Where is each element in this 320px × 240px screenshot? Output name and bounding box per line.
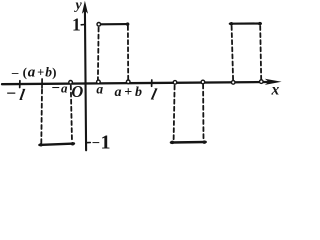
svg-text:1: 1 (101, 132, 111, 152)
svg-text:−a: −a (51, 80, 68, 96)
right positive pulse: dashed right edge (260, 26, 261, 80)
tick l (151, 80, 153, 86)
svg-text:−: − (6, 83, 16, 103)
middle negative pulse: dashed left edge (174, 86, 175, 141)
svg-text:a+b: a+b (115, 85, 143, 100)
left negative pulse: dashed left edge at x=-(a+b) (40, 90, 43, 143)
filled dot bottom-right corner of left pulse (71, 142, 75, 146)
open circle on axis at x=2l-a (201, 80, 205, 84)
tick y=-1 (86, 142, 90, 144)
tick y=1 (81, 24, 84, 26)
filled dot bottom-right corner of middle pulse (203, 140, 207, 144)
x-axis arrowhead (265, 79, 282, 85)
left negative pulse: bottom solid line at y=-1 (39, 144, 74, 145)
first positive pulse: dashed right edge at x=a+b (127, 26, 129, 80)
tick -l (19, 81, 21, 88)
open circle on axis at x=2l+a+b (260, 80, 264, 84)
right positive pulse: top solid line at y=1 (230, 22, 261, 24)
open circle at (a,1) top-left corner of first pulse (97, 23, 101, 27)
filled dot top-right corner of right pulse (258, 22, 262, 26)
svg-text:y: y (74, 0, 83, 13)
svg-text:1: 1 (72, 15, 81, 35)
first positive pulse: dashed left edge at x=a (97, 28, 100, 81)
middle negative pulse: bottom solid line at y=-1 (171, 141, 206, 144)
open circle on axis at x=a+b (126, 80, 130, 84)
filled dot top-left corner of right pulse (230, 22, 234, 26)
filled dot bottom-left corner of left pulse (39, 143, 43, 147)
svg-text:x: x (271, 81, 280, 98)
filled dot at (a+b,1) top-right corner of first pulse (126, 22, 130, 26)
filled dot bottom-left corner of middle pulse (171, 141, 175, 145)
middle negative pulse: dashed right edge (202, 85, 204, 140)
x-axis (2, 82, 269, 84)
open circle on axis at x=a (97, 80, 101, 84)
svg-text:−: − (92, 135, 100, 151)
svg-text:O: O (71, 82, 83, 101)
svg-text:a: a (96, 81, 103, 96)
left negative pulse: dashed right edge at x=-a (71, 86, 72, 143)
tick -(a+b) (41, 79, 43, 88)
y-axis (85, 8, 86, 150)
right positive pulse: dashed left edge (232, 26, 234, 80)
first positive pulse: top solid line at y=1 (101, 23, 128, 25)
open circle on axis at x=2l+a (231, 81, 235, 85)
open circle on axis at x=2l-(a+b) (173, 81, 177, 85)
y-axis arrowhead (82, 1, 88, 14)
open circle on axis at x=-a (69, 81, 73, 85)
svg-text:–(a+b): –(a+b) (11, 64, 57, 80)
